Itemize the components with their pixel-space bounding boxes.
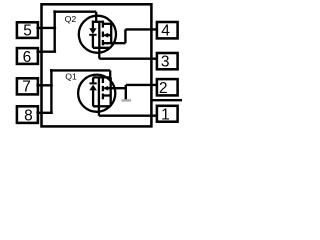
- wire pin7 to node D1 bus: [36, 84, 52, 86]
- Q1 drain entry wire: [109, 70, 111, 77]
- Q2 body diode anode lead: [92, 21, 94, 29]
- Q1 gate electrode and lead to pin1 wire: [98, 78, 100, 116]
- Q2 body arrow head: [103, 33, 108, 38]
- Q2 channel bar bottom segment: [102, 40, 104, 45]
- Q2 drain node bar: [93, 21, 103, 23]
- Q1 body diode cathode lead: [92, 77, 94, 82]
- Q2 drain-body tie vertical: [110, 24, 112, 43]
- Q1 channel bar top segment: [102, 76, 104, 83]
- Q1 channel bar bottom segment: [102, 94, 104, 100]
- wire D2 bus to Q2 drain: [53, 10, 96, 12]
- svg-text:3: 3: [161, 54, 170, 71]
- svg-text:7: 7: [22, 78, 31, 95]
- pin box 1: [157, 106, 178, 122]
- Q2 body diode triangle: [89, 28, 96, 34]
- wire S1 segment outside package to right edge: [152, 99, 182, 101]
- svg-text:8: 8: [24, 107, 33, 124]
- Q2 diode-to-source bottom wire: [93, 47, 111, 49]
- svg-text:5: 5: [23, 23, 32, 40]
- wire Q1 gate to pin 1: [99, 114, 157, 116]
- package outline U1 (SO-8 body): [42, 4, 152, 126]
- Q1 body diode anode lead: [92, 90, 94, 106]
- pin box 6: [17, 48, 38, 64]
- Q2 body stub wire: [105, 34, 112, 36]
- pin box 8: [17, 106, 38, 123]
- Q1 drain-source tie vertical: [110, 77, 112, 106]
- wire Q2 gate to pin 3: [99, 58, 157, 60]
- node D2 vertical bus: [54, 10, 56, 51]
- Q2 source stub exiting circle: [103, 42, 126, 44]
- wire pin8 to node D1 bus: [36, 112, 52, 114]
- wire D1 bus to Q1 drain: [50, 69, 110, 71]
- Q1 drain node bar: [93, 76, 111, 78]
- svg-text:4: 4: [161, 23, 170, 40]
- Q1 staircase vertical: [125, 85, 127, 101]
- pin box 2: [157, 79, 178, 95]
- Q2 gate electrode and lead to pin3 wire: [98, 23, 100, 59]
- wire pin6 to node D2 bus: [36, 51, 56, 53]
- Q1 body diode cathode bar: [90, 82, 97, 84]
- Q2 channel bar top segment: [102, 21, 104, 28]
- wire Q1 source to pin 2: [126, 84, 157, 86]
- Q2 body diode cathode lead: [92, 35, 94, 47]
- pin box 5: [17, 22, 38, 38]
- transistor Q1 circle: [78, 75, 115, 112]
- svg-text:Q2: Q2: [65, 14, 77, 24]
- svg-text:1: 1: [161, 106, 170, 123]
- Q2 drain stub: [103, 23, 111, 25]
- pin box 4: [157, 22, 178, 38]
- wire pin5 to node D2 bus: [36, 27, 56, 29]
- Q1 body diode triangle: [89, 85, 96, 91]
- wire S1 faded stub at staircase foot: [122, 99, 132, 101]
- Q1 diode-to-source bottom wire: [93, 105, 111, 107]
- Q2 channel bar middle segment: [102, 32, 104, 38]
- node D1 vertical bus: [50, 69, 52, 113]
- wire Q2 source to pin 4: [125, 28, 156, 30]
- Q1 body stub wire exiting circle: [105, 87, 126, 89]
- svg-text:6: 6: [23, 49, 32, 66]
- Q2 drain entry wire: [95, 12, 97, 22]
- Q2 body diode cathode bar: [89, 34, 96, 36]
- pin box 7: [17, 78, 38, 94]
- svg-text:2: 2: [159, 80, 168, 97]
- Q1 channel bar middle segment: [102, 86, 104, 91]
- Q2 source staircase vertical: [124, 29, 126, 43]
- Q1 source stub: [103, 94, 111, 96]
- transistor Q2 circle: [79, 16, 116, 53]
- Q1 body arrow head: [103, 86, 108, 91]
- pin box 3: [157, 53, 178, 69]
- svg-text:Q1: Q1: [65, 72, 77, 82]
